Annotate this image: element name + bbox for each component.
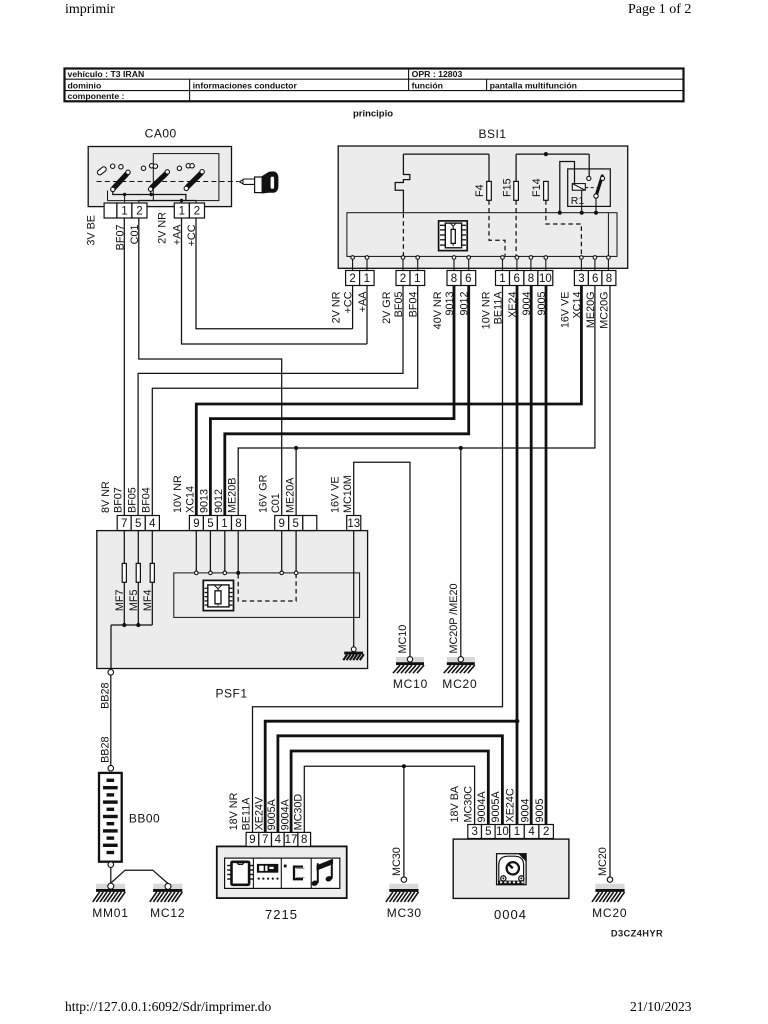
svg-text:5: 5 <box>135 518 141 530</box>
svg-text:MC10: MC10 <box>397 625 409 654</box>
svg-text:17: 17 <box>285 834 298 846</box>
svg-text:BF04: BF04 <box>141 487 153 513</box>
svg-text:8: 8 <box>606 273 612 285</box>
svg-text:pantalla multifunción: pantalla multifunción <box>490 80 577 90</box>
svg-text:3V BE: 3V BE <box>86 215 98 246</box>
svg-text:1: 1 <box>514 826 520 838</box>
svg-text:1: 1 <box>364 273 370 285</box>
svg-text:3: 3 <box>578 273 584 285</box>
svg-text:MC10M: MC10M <box>342 475 354 513</box>
svg-text:8: 8 <box>528 273 534 285</box>
svg-text:5: 5 <box>207 518 213 530</box>
svg-text:2V NR: 2V NR <box>331 291 343 323</box>
svg-text:1: 1 <box>179 205 185 217</box>
svg-text:4: 4 <box>149 518 156 530</box>
svg-text:9004A: 9004A <box>279 798 291 830</box>
svg-text:16V GR: 16V GR <box>257 474 269 513</box>
svg-text:7: 7 <box>121 518 127 530</box>
svg-text:0004: 0004 <box>494 907 527 922</box>
svg-text:1: 1 <box>499 273 505 285</box>
svg-text:16V VE: 16V VE <box>329 476 341 513</box>
svg-text:10V NR: 10V NR <box>172 475 184 513</box>
svg-text:9: 9 <box>278 518 284 530</box>
svg-text:8V NR: 8V NR <box>100 481 112 513</box>
svg-text:2V NR: 2V NR <box>156 212 168 244</box>
svg-text:1: 1 <box>414 273 420 285</box>
svg-text:función: función <box>412 80 443 90</box>
svg-text:8: 8 <box>235 518 241 530</box>
svg-text:F15: F15 <box>501 178 513 197</box>
svg-text:6: 6 <box>592 273 598 285</box>
svg-text:MC20G: MC20G <box>598 292 610 329</box>
svg-text:MC30D: MC30D <box>293 794 305 831</box>
svg-text:MF7: MF7 <box>114 590 126 612</box>
svg-text:MC12: MC12 <box>150 906 185 920</box>
svg-text:4: 4 <box>275 834 282 846</box>
svg-text:16V VE: 16V VE <box>559 292 571 329</box>
svg-text:10V NR: 10V NR <box>481 291 493 329</box>
svg-text:9: 9 <box>193 518 199 530</box>
svg-text:vehículo : T3 IRAN: vehículo : T3 IRAN <box>68 69 145 79</box>
svg-text:2: 2 <box>400 273 406 285</box>
svg-text:1: 1 <box>121 205 127 217</box>
svg-text:BB28: BB28 <box>99 683 111 709</box>
svg-text:BE11A: BE11A <box>241 797 253 831</box>
svg-text:9005A: 9005A <box>490 790 502 822</box>
svg-text:BB00: BB00 <box>129 812 160 826</box>
svg-text:9: 9 <box>249 834 255 846</box>
svg-text:6: 6 <box>513 273 519 285</box>
svg-text:MM01: MM01 <box>92 906 129 920</box>
svg-text:MC20: MC20 <box>592 906 627 920</box>
svg-text:CA00: CA00 <box>145 127 177 141</box>
svg-text:XE24V: XE24V <box>253 796 265 830</box>
svg-text:C01: C01 <box>270 493 282 513</box>
svg-text:MC30: MC30 <box>391 847 403 876</box>
svg-text:9005: 9005 <box>534 798 546 822</box>
svg-text:7215: 7215 <box>265 907 298 922</box>
svg-text:9005A: 9005A <box>266 798 278 830</box>
svg-text:MC20: MC20 <box>597 847 609 876</box>
svg-text:9004A: 9004A <box>476 790 488 822</box>
svg-text:XE24C: XE24C <box>505 788 517 822</box>
svg-text:18V BA: 18V BA <box>449 785 461 822</box>
svg-text:4: 4 <box>528 826 535 838</box>
svg-text:8: 8 <box>301 834 307 846</box>
svg-text:5: 5 <box>485 826 491 838</box>
svg-text:OPR : 12803: OPR : 12803 <box>412 69 463 79</box>
svg-text:2V GR: 2V GR <box>381 291 393 324</box>
svg-text:dominio: dominio <box>68 80 102 90</box>
svg-text:6: 6 <box>465 273 471 285</box>
svg-text:13: 13 <box>347 518 360 530</box>
svg-text:MC20P /ME20: MC20P /ME20 <box>448 583 460 653</box>
svg-text:9013: 9013 <box>199 489 211 513</box>
svg-text:informaciones conductor: informaciones conductor <box>193 80 298 90</box>
svg-text:10: 10 <box>539 273 552 285</box>
svg-text:ME20A: ME20A <box>284 477 296 513</box>
svg-text:2: 2 <box>194 205 200 217</box>
svg-text:2: 2 <box>349 273 355 285</box>
svg-text:principio: principio <box>353 109 393 120</box>
svg-text:7: 7 <box>262 834 268 846</box>
svg-text:BF07: BF07 <box>113 487 125 513</box>
svg-text:3: 3 <box>471 826 477 838</box>
svg-text:ME20B: ME20B <box>226 478 238 513</box>
svg-text:1: 1 <box>221 518 227 530</box>
svg-text:F4: F4 <box>474 184 486 197</box>
svg-text:MC30C: MC30C <box>462 786 474 823</box>
svg-text:R1: R1 <box>571 195 585 207</box>
svg-text:BF05: BF05 <box>126 487 138 513</box>
svg-text:MC30: MC30 <box>387 906 422 920</box>
svg-text:MF5: MF5 <box>128 590 140 612</box>
svg-text:2: 2 <box>543 826 549 838</box>
svg-text:BSI1: BSI1 <box>478 127 506 141</box>
svg-text:BB28: BB28 <box>99 737 111 763</box>
svg-text:18V NR: 18V NR <box>228 792 240 830</box>
svg-text:2: 2 <box>136 205 142 217</box>
svg-text:MC10: MC10 <box>393 677 428 691</box>
svg-text:MF4: MF4 <box>142 590 154 612</box>
svg-text:5: 5 <box>293 518 299 530</box>
svg-text:9012: 9012 <box>213 489 225 513</box>
svg-text:componente :: componente : <box>68 91 125 101</box>
svg-text:PSF1: PSF1 <box>215 687 247 701</box>
svg-text:F14: F14 <box>531 178 543 197</box>
svg-text:8: 8 <box>451 273 457 285</box>
svg-text:9004: 9004 <box>519 798 531 822</box>
svg-text:XC14: XC14 <box>185 486 197 513</box>
svg-text:D3CZ4HYR: D3CZ4HYR <box>611 929 663 939</box>
svg-text:10: 10 <box>496 826 509 838</box>
svg-text:MC20: MC20 <box>442 677 477 691</box>
svg-text:40V NR: 40V NR <box>432 291 444 329</box>
